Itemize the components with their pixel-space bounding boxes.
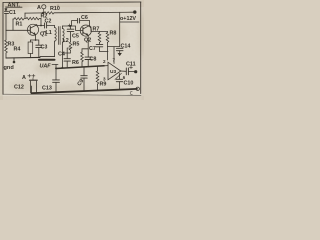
svg-text:L2: L2 — [63, 38, 69, 44]
svg-text:7: 7 — [113, 58, 116, 63]
svg-text:Q2: Q2 — [84, 38, 91, 44]
svg-text:R8: R8 — [110, 31, 117, 37]
svg-text:A: A — [22, 75, 26, 81]
svg-text:gnd: gnd — [4, 65, 15, 71]
svg-text:C8: C8 — [90, 57, 97, 63]
svg-text:C1: C1 — [9, 10, 16, 16]
svg-text:o+12V: o+12V — [120, 16, 136, 22]
svg-text:R4: R4 — [14, 46, 21, 52]
svg-text:C3: C3 — [41, 45, 48, 51]
svg-text:R9: R9 — [100, 82, 107, 88]
svg-text:L1: L1 — [46, 30, 52, 36]
svg-text:C13: C13 — [42, 86, 52, 92]
svg-text:C12: C12 — [14, 85, 24, 91]
svg-text:2: 2 — [103, 59, 106, 64]
svg-text:C10: C10 — [124, 81, 134, 87]
svg-text:UAF: UAF — [40, 64, 52, 70]
svg-text:C6: C6 — [81, 15, 88, 21]
svg-text:C11: C11 — [126, 62, 136, 68]
svg-text:A: A — [37, 5, 41, 11]
svg-text:R1: R1 — [16, 22, 23, 28]
svg-text:C14: C14 — [121, 44, 131, 50]
svg-text:ANT.: ANT. — [8, 3, 21, 9]
svg-text:C2: C2 — [45, 19, 52, 25]
svg-text:R10: R10 — [50, 6, 60, 12]
svg-text:C4: C4 — [58, 52, 65, 58]
svg-text:R5: R5 — [73, 42, 80, 48]
svg-text:C7: C7 — [89, 46, 96, 52]
svg-text:R7: R7 — [93, 27, 100, 33]
svg-text:C5: C5 — [72, 34, 79, 40]
svg-text:R6: R6 — [72, 60, 79, 66]
svg-text:U3: U3 — [110, 69, 116, 75]
